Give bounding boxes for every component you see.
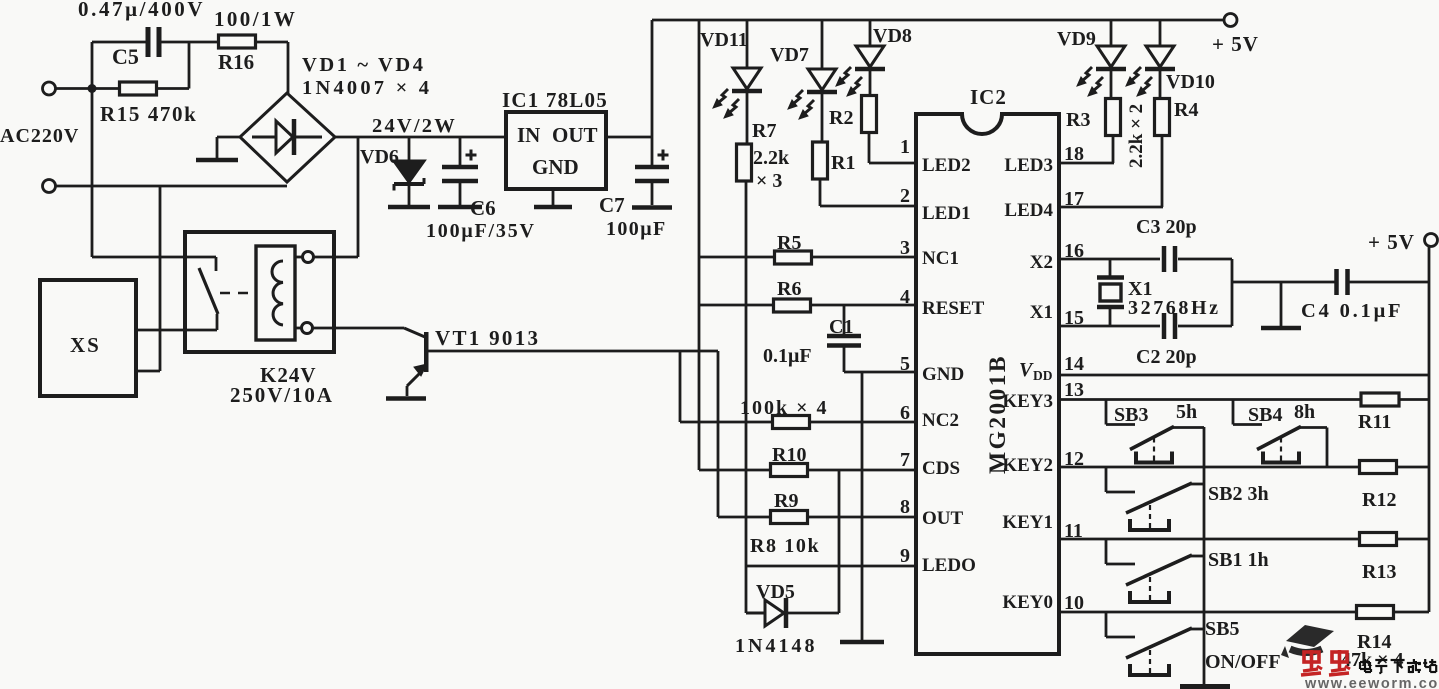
svg-text:+ 5V: + 5V bbox=[1212, 32, 1259, 56]
svg-text:MG2001B: MG2001B bbox=[985, 354, 1011, 474]
svg-text:1N4148: 1N4148 bbox=[735, 635, 817, 657]
svg-text:VT1 9013: VT1 9013 bbox=[435, 326, 540, 350]
svg-text:+ 5V: + 5V bbox=[1368, 230, 1415, 254]
svg-text:C3 20p: C3 20p bbox=[1136, 216, 1197, 238]
svg-text:× 3: × 3 bbox=[756, 170, 782, 192]
svg-text:8: 8 bbox=[900, 496, 910, 518]
svg-text:IC1 78L05: IC1 78L05 bbox=[502, 88, 608, 112]
svg-text:X2: X2 bbox=[1030, 252, 1053, 273]
svg-text:CDS: CDS bbox=[922, 458, 960, 479]
svg-text:18: 18 bbox=[1064, 143, 1084, 165]
svg-text:2.2k: 2.2k bbox=[753, 147, 790, 169]
svg-text:3: 3 bbox=[900, 237, 910, 259]
svg-text:VD6: VD6 bbox=[360, 146, 399, 168]
svg-text:GND: GND bbox=[532, 155, 579, 179]
svg-text:R13: R13 bbox=[1362, 561, 1396, 583]
svg-text:SB5: SB5 bbox=[1205, 618, 1239, 640]
svg-text:R8 10k: R8 10k bbox=[750, 535, 820, 557]
svg-text:SB4: SB4 bbox=[1248, 404, 1282, 426]
svg-text:VD9: VD9 bbox=[1057, 28, 1096, 50]
svg-text:KEY1: KEY1 bbox=[1002, 512, 1053, 533]
svg-text:SB1 1h: SB1 1h bbox=[1208, 549, 1269, 571]
svg-text:GND: GND bbox=[922, 364, 964, 385]
svg-text:R11: R11 bbox=[1358, 411, 1391, 433]
svg-text:32768Hz: 32768Hz bbox=[1128, 297, 1221, 319]
svg-text:11: 11 bbox=[1064, 520, 1083, 542]
svg-text:7: 7 bbox=[900, 449, 910, 471]
svg-text:X1: X1 bbox=[1030, 302, 1053, 323]
svg-text:NC2: NC2 bbox=[922, 410, 959, 431]
svg-text:8h: 8h bbox=[1294, 401, 1315, 423]
svg-text:LED1: LED1 bbox=[922, 203, 971, 224]
svg-text:R9: R9 bbox=[774, 490, 798, 512]
svg-text:SB3: SB3 bbox=[1114, 404, 1148, 426]
svg-text:KEY0: KEY0 bbox=[1002, 592, 1053, 613]
svg-text:DD: DD bbox=[1033, 368, 1053, 383]
svg-text:IC2: IC2 bbox=[970, 85, 1007, 109]
svg-text:5: 5 bbox=[900, 353, 910, 375]
svg-text:C7: C7 bbox=[599, 193, 625, 217]
svg-text:100k × 4: 100k × 4 bbox=[740, 397, 829, 419]
svg-text:R5: R5 bbox=[777, 232, 801, 254]
svg-text:R2: R2 bbox=[829, 107, 853, 129]
svg-text:NC1: NC1 bbox=[922, 248, 959, 269]
svg-text:0.47μ/400V: 0.47μ/400V bbox=[78, 0, 205, 21]
svg-text:VD10: VD10 bbox=[1166, 71, 1215, 93]
svg-text:ON/OFF: ON/OFF bbox=[1205, 651, 1281, 673]
svg-text:10: 10 bbox=[1064, 592, 1084, 614]
svg-text:LED2: LED2 bbox=[922, 155, 971, 176]
svg-text:16: 16 bbox=[1064, 240, 1084, 262]
svg-text:100/1W: 100/1W bbox=[214, 7, 297, 31]
svg-text:R4: R4 bbox=[1174, 99, 1198, 121]
svg-text:17: 17 bbox=[1064, 188, 1084, 210]
svg-text:SB2 3h: SB2 3h bbox=[1208, 483, 1269, 505]
svg-text:C1: C1 bbox=[829, 316, 853, 338]
svg-text:2.2k × 2: 2.2k × 2 bbox=[1126, 104, 1147, 168]
svg-text:0.1μF: 0.1μF bbox=[763, 345, 812, 367]
svg-text:100μF/35V: 100μF/35V bbox=[426, 220, 536, 242]
svg-text:5h: 5h bbox=[1176, 401, 1197, 423]
svg-text:14: 14 bbox=[1064, 353, 1084, 375]
svg-text:LED4: LED4 bbox=[1004, 200, 1053, 221]
svg-text:IN: IN bbox=[517, 123, 540, 147]
svg-text:XS: XS bbox=[70, 333, 101, 357]
svg-text:VD5: VD5 bbox=[756, 581, 795, 603]
svg-text:R3: R3 bbox=[1066, 109, 1090, 131]
svg-text:LED3: LED3 bbox=[1004, 155, 1053, 176]
svg-text:24V/2W: 24V/2W bbox=[372, 115, 457, 137]
svg-text:OUT: OUT bbox=[922, 508, 964, 529]
svg-text:VD11: VD11 bbox=[700, 29, 748, 51]
svg-text:C5: C5 bbox=[112, 44, 139, 69]
svg-text:2: 2 bbox=[900, 185, 910, 207]
svg-text:1N4007 × 4: 1N4007 × 4 bbox=[302, 77, 432, 99]
svg-text:R7: R7 bbox=[752, 120, 776, 142]
svg-text:VD8: VD8 bbox=[873, 25, 912, 47]
svg-text:VD7: VD7 bbox=[770, 44, 809, 66]
svg-text:C2 20p: C2 20p bbox=[1136, 346, 1197, 368]
svg-text:VD1 ~ VD4: VD1 ~ VD4 bbox=[302, 54, 426, 76]
svg-text:www.eeworm.com: www.eeworm.com bbox=[1304, 676, 1439, 689]
svg-text:R12: R12 bbox=[1362, 489, 1396, 511]
svg-text:C4 0.1μF: C4 0.1μF bbox=[1301, 300, 1403, 322]
svg-text:100μF: 100μF bbox=[606, 218, 667, 240]
svg-text:AC220V: AC220V bbox=[0, 125, 79, 147]
svg-text:R6: R6 bbox=[777, 278, 801, 300]
svg-text:1: 1 bbox=[900, 136, 910, 158]
svg-text:4: 4 bbox=[900, 286, 910, 308]
svg-text:C6: C6 bbox=[470, 196, 496, 220]
svg-text:V: V bbox=[1019, 359, 1034, 381]
svg-text:250V/10A: 250V/10A bbox=[230, 383, 334, 407]
svg-text:6: 6 bbox=[900, 402, 910, 424]
svg-text:LEDO: LEDO bbox=[922, 555, 976, 576]
svg-text:9: 9 bbox=[900, 545, 910, 567]
svg-text:R16: R16 bbox=[218, 50, 254, 74]
svg-text:13: 13 bbox=[1064, 379, 1084, 401]
svg-text:12: 12 bbox=[1064, 448, 1084, 470]
svg-text:R1: R1 bbox=[831, 152, 855, 174]
svg-text:R10: R10 bbox=[772, 444, 806, 466]
svg-text:OUT: OUT bbox=[552, 123, 598, 147]
svg-text:R15 470k: R15 470k bbox=[100, 102, 197, 126]
svg-text:15: 15 bbox=[1064, 307, 1084, 329]
svg-text:RESET: RESET bbox=[922, 298, 985, 319]
